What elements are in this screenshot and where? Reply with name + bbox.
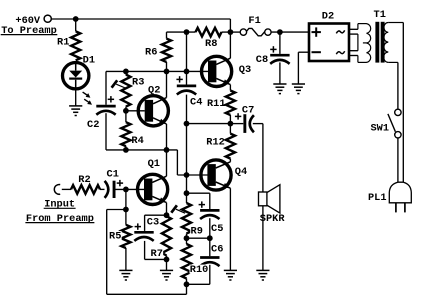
label D2 [322, 10, 334, 22]
transistor Q3 [202, 56, 232, 86]
svg-text:C6: C6 [211, 244, 223, 256]
label R12 [206, 136, 225, 148]
label R8 [205, 38, 217, 50]
svg-text:R9: R9 [191, 225, 203, 237]
svg-text:SW1: SW1 [371, 122, 390, 134]
junction R8 right [228, 29, 234, 35]
junction R3 top [123, 69, 129, 75]
resistor R8 [196, 28, 231, 37]
wire C7 right [253, 124, 263, 192]
label C4 [190, 96, 203, 108]
wire Q2 emitter [166, 124, 168, 150]
label R6 [145, 47, 157, 59]
wire C5 top [187, 193, 210, 209]
transistor Q4 [201, 160, 231, 190]
wire upper bias rail [106, 70, 208, 72]
wire R2 to C1 [100, 188, 105, 190]
svg-text:R8: R8 [205, 38, 217, 50]
junction R10 bottom [184, 281, 190, 287]
ground D2 minus [292, 84, 305, 94]
label PL1 [368, 192, 387, 204]
svg-text:C2: C2 [87, 119, 99, 131]
capacitor C6 [200, 258, 219, 267]
svg-text:C1: C1 [107, 169, 119, 181]
ground under R5 [119, 270, 132, 280]
svg-text:Q3: Q3 [239, 64, 251, 76]
wire C3 frame bottom [145, 241, 167, 260]
capacitor C1 [105, 180, 124, 198]
node input jack [54, 185, 60, 195]
wire R5 upper stem [125, 189, 127, 224]
label R2 [78, 174, 90, 186]
svg-text:T1: T1 [374, 9, 386, 21]
wire C1 to Q1 base [116, 188, 145, 190]
ground under D1 [69, 89, 82, 116]
LED D1 [62, 62, 88, 88]
resistor R1 [71, 19, 80, 60]
wire C5C6 tap [187, 237, 210, 239]
svg-text:R12: R12 [206, 136, 225, 148]
capacitor C8 [270, 46, 289, 64]
svg-text:C8: C8 [256, 54, 268, 66]
svg-text:R11: R11 [207, 98, 226, 110]
label R9 [190, 225, 203, 237]
wire +60V top rail [51, 19, 230, 32]
junction Q2 emitter row [164, 147, 170, 153]
LED D1 arrows [83, 92, 92, 105]
capacitor C5 [199, 201, 220, 219]
label Q4 [235, 166, 247, 178]
label T1 [374, 9, 386, 21]
label F1 [248, 15, 260, 27]
transformer T1 secondary winding [384, 23, 404, 63]
transistor Q2 [138, 96, 168, 126]
junction R9 top [184, 190, 190, 196]
wire SPKR to ground [262, 206, 264, 271]
wire Q4 emitter to ground [229, 188, 231, 270]
capacitor C2 [96, 96, 115, 115]
label R5 [109, 231, 122, 243]
plug PL1 [389, 182, 411, 212]
wire Q1 emitter [166, 203, 168, 216]
junction R11 bottom row left [184, 121, 190, 127]
ground under Q4 [224, 270, 237, 280]
wire C4 stems and center rail [186, 71, 188, 203]
svg-text:F1: F1 [248, 15, 260, 27]
fuse F1 [240, 28, 271, 35]
wire Q2 base [126, 110, 145, 112]
bridge rectifier D2 [309, 24, 349, 62]
svg-text:C4: C4 [190, 96, 202, 108]
wire T1 to SW1 [397, 62, 399, 109]
ground under C8 [273, 84, 286, 94]
trimmer arrow R9 [171, 205, 185, 213]
wire T1 to PL1 right [402, 23, 404, 183]
transistor Q1 [138, 174, 168, 204]
label C1 [107, 169, 119, 181]
switch SW1 [388, 109, 401, 138]
junction R6 bottom [164, 69, 170, 75]
label D1 [83, 54, 95, 66]
junction C4 top [184, 69, 190, 75]
label R3 [132, 76, 144, 88]
wire C5 bottom [209, 218, 211, 238]
label +60V [15, 15, 41, 27]
label SPKR [260, 213, 286, 225]
junction R8 left [184, 29, 190, 35]
svg-text:D1: D1 [83, 54, 95, 66]
svg-text:C5: C5 [211, 223, 223, 235]
wire Q1 collector [166, 150, 168, 176]
resistor R9 [182, 203, 191, 238]
junction Q4 base rail [184, 172, 190, 178]
label R7 [150, 248, 163, 260]
capacitor C3 [134, 223, 153, 241]
resistor R12 [226, 124, 235, 162]
wire C7 left [230, 123, 243, 125]
ground under R7 [160, 259, 173, 280]
junction R5 top [123, 207, 129, 213]
transformer T1 primary winding [358, 24, 371, 63]
wire Q3 collector [229, 32, 231, 58]
resistor R10 [182, 238, 191, 284]
wire C8 stem [279, 32, 281, 54]
speaker SPKR [259, 185, 280, 213]
svg-text:R6: R6 [145, 47, 157, 59]
svg-text:R2: R2 [78, 174, 90, 186]
label Q2 [148, 85, 160, 97]
label C3 [147, 216, 160, 228]
wire R8-left vertical [186, 32, 188, 71]
wire C6 stems [187, 238, 210, 284]
wire SW1 to PL1 [397, 138, 399, 182]
capacitor C7 [235, 113, 254, 133]
transformer T1 core [375, 22, 384, 63]
junction R11 bottom [228, 121, 234, 127]
junction C1-R5 [123, 187, 129, 193]
capacitor C4 [176, 76, 196, 94]
wire Q2 collector [166, 71, 168, 97]
wire C8 to ground [279, 62, 281, 84]
label C5 [211, 223, 224, 235]
junction R7 bottom [164, 257, 170, 263]
ground under SPKR [256, 270, 269, 280]
label Q3 [239, 64, 251, 76]
svg-text:Q1: Q1 [148, 158, 160, 170]
junction R4 bottom [123, 147, 129, 153]
svg-text:SPKR: SPKR [260, 213, 286, 225]
junction C8 top [277, 29, 283, 35]
wire bottom-left rail [107, 210, 187, 295]
svg-text:C7: C7 [242, 105, 254, 117]
svg-text:Q4: Q4 [235, 166, 247, 178]
svg-text:PL1: PL1 [368, 192, 387, 204]
resistor R4 [121, 111, 130, 150]
label R10 [190, 264, 209, 276]
svg-text:C3: C3 [147, 216, 159, 228]
wire input [62, 188, 71, 190]
junction R1 top [73, 16, 79, 22]
label Input [44, 199, 76, 211]
wire D2 minus to ground [298, 52, 309, 84]
wire C3 frame top [145, 215, 167, 231]
svg-text:R3: R3 [132, 76, 144, 88]
svg-text:Q2: Q2 [148, 85, 160, 97]
svg-text:R4: R4 [131, 135, 143, 147]
resistor R2 [71, 185, 100, 194]
wire R6 top [167, 31, 196, 33]
label To Preamp [1, 25, 58, 37]
transformer T1 primary tabs [349, 29, 358, 55]
label SW1 [371, 122, 390, 134]
label C8 [256, 54, 268, 66]
label C2 [87, 119, 99, 131]
wire F1 left [230, 31, 240, 33]
wire C2 bottom to R4 row [106, 113, 126, 150]
resistor R5 [121, 225, 130, 271]
svg-text:R5: R5 [109, 231, 121, 243]
wire C2 top stem [105, 71, 107, 104]
wire to Q4 base [177, 150, 207, 175]
wire R11-R12 to rail [187, 123, 231, 125]
resistor R7 [162, 216, 171, 259]
label R1 [57, 36, 69, 48]
wire F1 right [271, 31, 309, 33]
wire R4-bottom row [126, 149, 177, 151]
label From Preamp [25, 213, 94, 225]
svg-text:R10: R10 [190, 264, 209, 276]
label R4 [131, 135, 143, 147]
junction Q2 base [123, 108, 129, 114]
resistor R3 [121, 71, 130, 110]
label R11 [207, 98, 226, 110]
resistor R11 [226, 85, 235, 124]
junction Q1 emitter [164, 212, 170, 218]
label Q1 [148, 158, 160, 170]
node +60V terminal [44, 15, 51, 22]
trimmer arrow R3 [112, 80, 126, 88]
svg-text:D2: D2 [322, 10, 334, 22]
svg-text:R1: R1 [57, 36, 69, 48]
resistor R6 [162, 32, 171, 71]
junction C5-C6 [207, 235, 213, 241]
label C7 [242, 105, 255, 117]
junction R10 top [184, 235, 190, 241]
label C6 [211, 244, 224, 256]
svg-text:R7: R7 [151, 248, 163, 260]
